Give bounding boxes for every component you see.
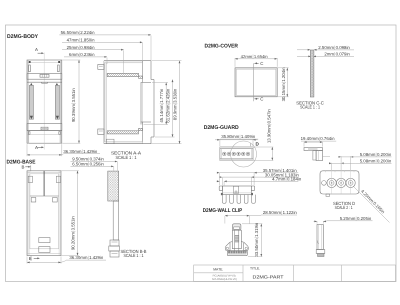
marker C top	[254, 62, 257, 64]
section A-A bottom hatched rib	[107, 131, 138, 134]
marker C bottom	[254, 98, 257, 100]
cover width dim 42mm	[234, 58, 236, 67]
svg-text:A: A	[35, 145, 38, 150]
detail circle D	[231, 141, 257, 167]
body front view outline	[27, 60, 28, 143]
svg-text:61.62mm: 61.62mm	[166, 104, 171, 122]
section B-B foot	[110, 240, 119, 246]
guard holes	[223, 152, 227, 156]
svg-text:5.08mm: 5.08mm	[360, 152, 376, 157]
base top tabs	[28, 176, 32, 182]
svg-text:1.654in: 1.654in	[254, 54, 268, 59]
svg-text:B: B	[29, 256, 32, 261]
section D bumps	[325, 171, 327, 172]
svg-text:1.777in: 1.777in	[159, 88, 164, 103]
svg-text:0.200in: 0.200in	[377, 158, 392, 163]
body upper band	[27, 74, 62, 80]
svg-text:33.50mm: 33.50mm	[254, 238, 259, 256]
body bottom box	[27, 129, 62, 131]
body latch arrows upper	[30, 83, 32, 85]
svg-text:0.205in: 0.205in	[357, 216, 372, 221]
wall clip body	[232, 230, 241, 249]
section A-A left wall	[104, 61, 106, 144]
dim 30.05mm	[221, 177, 223, 185]
wall clip side view	[317, 225, 323, 250]
svg-text:1.319in: 1.319in	[254, 222, 259, 237]
svg-text:0.764in: 0.764in	[320, 136, 335, 141]
svg-text:28.50mm: 28.50mm	[263, 210, 281, 215]
svg-text:35.80mm: 35.80mm	[221, 134, 239, 139]
dim 5.20mm	[316, 221, 318, 224]
base bottom lines	[27, 253, 61, 255]
base outline	[27, 171, 30, 256]
svg-text:NYLON66(ULFW-V0): NYLON66(ULFW-V0)	[212, 278, 237, 281]
svg-text:89.9mm: 89.9mm	[172, 104, 177, 120]
base width dim 36.30mm	[26, 257, 28, 264]
svg-text:0.200in: 0.200in	[377, 152, 392, 157]
body top slots	[29, 65, 31, 72]
dim 35.57mm	[219, 173, 221, 185]
guard width dim 35.80mm	[219, 139, 221, 146]
clip height dim 33.50mm	[242, 223, 262, 225]
body top corner marks	[29, 61, 31, 63]
wall clip base	[227, 251, 247, 256]
body lower band	[27, 124, 62, 131]
svg-text:SCALE 1 : 1: SCALE 1 : 1	[300, 105, 320, 110]
svg-text:19.40mm: 19.40mm	[301, 136, 319, 141]
svg-text:2.50mm: 2.50mm	[318, 45, 334, 50]
svg-text:MATE.: MATE.	[213, 268, 223, 272]
dim 4.7mm	[223, 182, 225, 186]
svg-text:2.224in: 2.224in	[80, 30, 95, 35]
base latch squares	[31, 198, 36, 203]
svg-text:4.7mm: 4.7mm	[272, 177, 286, 182]
svg-text:3.551in: 3.551in	[71, 216, 76, 231]
section B-B wall	[113, 201, 119, 240]
svg-text:6mm: 6mm	[69, 52, 79, 57]
section A-A top flange	[104, 61, 143, 63]
title block	[194, 265, 396, 282]
svg-text:1.850in: 1.850in	[80, 37, 95, 42]
svg-text:47mm: 47mm	[67, 37, 79, 42]
svg-text:SCALE 1 : 1: SCALE 1 : 1	[124, 253, 144, 258]
svg-text:90.20mm: 90.20mm	[71, 232, 76, 250]
svg-text:TITLE.: TITLE.	[250, 267, 260, 271]
svg-text:5.08mm: 5.08mm	[360, 158, 376, 163]
base inner rect	[30, 174, 59, 249]
svg-text:6.50mm: 6.50mm	[72, 162, 88, 167]
dim 19.40mm	[303, 142, 305, 146]
svg-text:0.256in: 0.256in	[90, 162, 105, 167]
svg-text:0.984in: 0.984in	[80, 45, 95, 50]
svg-text:42mm: 42mm	[241, 54, 253, 59]
svg-text:3.551in: 3.551in	[71, 88, 76, 103]
svg-text:0.547in: 0.547in	[266, 109, 271, 124]
svg-text:0.236in: 0.236in	[80, 52, 95, 57]
svg-text:C: C	[260, 97, 263, 102]
svg-text:A: A	[35, 47, 38, 52]
svg-text:SCALE 1 : 1: SCALE 1 : 1	[116, 155, 137, 160]
svg-text:1.429in: 1.429in	[89, 255, 104, 260]
base height dim 90.20mm	[62, 170, 79, 172]
body side rails	[29, 85, 33, 119]
svg-text:36.30mm: 36.30mm	[63, 149, 81, 154]
section A-A left tabs	[98, 65, 104, 70]
body width dimension 36.30mm	[26, 144, 28, 156]
section D outline	[320, 171, 359, 194]
base center rib	[43, 171, 45, 196]
section A-A right dimensions	[144, 124, 169, 126]
svg-text:5.20mm: 5.20mm	[340, 216, 356, 221]
svg-text:45.14mm: 45.14mm	[159, 104, 164, 122]
base middle slots	[39, 238, 50, 243]
svg-text:0.184in: 0.184in	[287, 177, 302, 182]
svg-text:0.098in: 0.098in	[336, 45, 351, 50]
section A-A inner wall	[140, 83, 142, 125]
body height dimension 90.39mm	[62, 59, 80, 61]
guard bottom view	[219, 186, 222, 191]
svg-text:13.90mm: 13.90mm	[266, 125, 271, 143]
svg-text:1.204in: 1.204in	[281, 67, 286, 82]
body latch marks lower	[30, 116, 33, 119]
svg-text:30.15mm: 30.15mm	[281, 83, 286, 101]
dim 5.08 top	[340, 156, 342, 170]
svg-text:B: B	[22, 164, 25, 169]
guard front view	[220, 147, 253, 160]
svg-text:3.538in: 3.538in	[172, 88, 177, 103]
diagonal dim 4.20mm	[353, 186, 389, 222]
clip width dim 28.50mm	[224, 216, 226, 224]
svg-text:36.30mm: 36.30mm	[69, 255, 87, 260]
guard teeth	[222, 195, 226, 204]
guard side view	[304, 148, 323, 151]
svg-text:D2MG-COVER: D2MG-COVER	[205, 44, 239, 50]
section C-C strip	[310, 50, 314, 97]
svg-text:0.079in: 0.079in	[336, 52, 351, 57]
section A-A bottom flange	[104, 142, 143, 144]
section A-A right step	[151, 79, 154, 81]
guard height dim 13.90mm	[254, 146, 274, 148]
cover outline	[235, 68, 277, 97]
cover height dim 30.15mm	[278, 67, 289, 69]
svg-text:56.50mm: 56.50mm	[61, 30, 79, 35]
svg-text:C: C	[260, 61, 263, 66]
svg-text:1.122in: 1.122in	[283, 210, 298, 215]
svg-text:2mm: 2mm	[324, 52, 334, 57]
svg-text:1.429in: 1.429in	[83, 149, 98, 154]
wall clip head	[233, 224, 241, 230]
svg-text:25mm: 25mm	[67, 45, 79, 50]
svg-text:D2MG-PART: D2MG-PART	[253, 275, 284, 280]
svg-text:90.39mm: 90.39mm	[71, 104, 76, 122]
section B-B hatched block	[108, 171, 119, 201]
dim 5.08 bottom	[331, 163, 333, 170]
svg-text:1.409in: 1.409in	[241, 134, 256, 139]
wall clip right wing	[241, 242, 248, 251]
svg-text:D2MG-WALL CLIP: D2MG-WALL CLIP	[203, 208, 243, 214]
wall clip left wing	[225, 242, 232, 251]
body centerline / section A-A cut line	[43, 53, 45, 150]
svg-text:2.426in: 2.426in	[166, 88, 171, 103]
section D foot	[326, 194, 330, 196]
section A-A top hatched rib	[107, 73, 138, 76]
cover section line C-C	[253, 63, 255, 101]
svg-text:D2MG-GUARD: D2MG-GUARD	[204, 125, 239, 131]
svg-text:SCALE 2 : 1: SCALE 2 : 1	[335, 205, 353, 210]
section D holes	[322, 181, 327, 186]
dim 2mm	[297, 55, 311, 57]
svg-text:D2MG-BODY: D2MG-BODY	[7, 34, 38, 40]
dim 2.50mm	[297, 49, 310, 51]
